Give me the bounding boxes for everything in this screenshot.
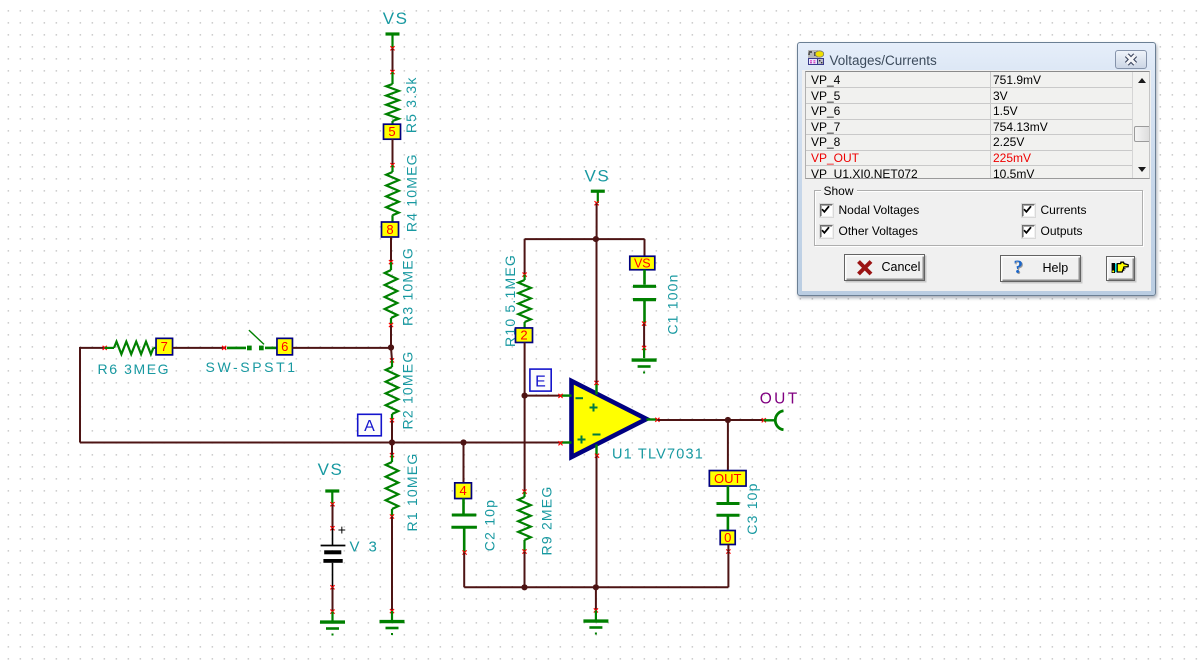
junction node A (389, 439, 395, 445)
wire R3 to junction (390, 325, 392, 348)
checkbox Other Voltages (820, 225, 833, 238)
svg-text:VS: VS (383, 9, 409, 28)
wire node E to inverting input (525, 395, 561, 397)
wire op-amp V+ to VS (596, 239, 598, 383)
svg-text:R6 3MEG: R6 3MEG (98, 361, 171, 377)
checkbox Currents (1022, 204, 1035, 217)
svg-text:VS: VS (318, 460, 344, 479)
power VS (battery) (318, 460, 344, 506)
wire node8 to R3 (390, 237, 392, 262)
resistor R3 (385, 247, 416, 327)
capacitor C2 (451, 499, 497, 555)
svg-text:A: A (364, 418, 375, 435)
svg-text:5: 5 (388, 124, 395, 139)
scrollbar (1132, 72, 1150, 178)
ground (main) (583, 608, 608, 634)
svg-text:SW-SPST1: SW-SPST1 (206, 359, 298, 375)
capacitor C3 (717, 482, 761, 534)
svg-text:VS: VS (585, 166, 611, 185)
node 8 (382, 222, 399, 237)
wire VS to V3 (332, 504, 334, 528)
wire output node to C3 (727, 420, 729, 471)
wire bottom rail to ground (595, 587, 597, 610)
Help button (1000, 255, 1081, 282)
junction R9 bottom (521, 584, 527, 590)
wire bottom rail (464, 586, 728, 588)
voltages list (805, 71, 1150, 179)
svg-text:6: 6 (281, 339, 288, 354)
output terminal OUT (760, 390, 800, 430)
node 5 (384, 124, 401, 139)
dialog icon (808, 50, 824, 70)
svg-text:R5 3.3k: R5 3.3k (403, 76, 419, 133)
wire left corner to R6 (80, 347, 107, 443)
svg-text:C2 10p: C2 10p (482, 499, 498, 551)
wire output to terminal (728, 419, 764, 421)
wire node2 to node E (524, 343, 526, 396)
ground (R1) (380, 609, 405, 635)
svg-text:R4 10MEG: R4 10MEG (404, 153, 420, 232)
svg-text:0: 0 (724, 530, 731, 545)
wire C1 to ground (643, 324, 645, 348)
capacitor C1 (633, 270, 681, 335)
dialog Voltages/Currents (797, 42, 1156, 296)
wire op-amp V- to bottom rail (596, 456, 598, 588)
node 2 (516, 328, 533, 343)
wire op-amp output (657, 419, 728, 421)
svg-text:U1 TLV7031: U1 TLV7031 (612, 447, 704, 463)
checkbox Outputs (1022, 225, 1035, 238)
Show group box (814, 190, 1143, 246)
power VS (op-amp) (585, 166, 611, 205)
svg-text:OUT: OUT (760, 390, 800, 407)
wire node A rail to C2 (463, 443, 465, 484)
junction node E (522, 393, 528, 399)
junction VS node (593, 236, 599, 242)
wire VS to junction (596, 203, 598, 239)
resistor R5 (386, 70, 419, 133)
junction C2 top (460, 439, 466, 445)
svg-text:R9 2MEG: R9 2MEG (539, 486, 555, 556)
battery V3 (321, 522, 380, 588)
svg-text:E: E (535, 374, 546, 391)
svg-text:R2 10MEG: R2 10MEG (400, 351, 416, 430)
power VS (top rail) (383, 9, 409, 50)
junction output node (725, 417, 731, 423)
node A label (358, 414, 382, 436)
node E label (530, 369, 551, 391)
node OUT label (C3) (709, 471, 746, 487)
ground (C1) (632, 346, 657, 374)
wire VS junction left to R10 (525, 239, 596, 275)
checkbox Nodal Voltages (820, 204, 833, 217)
svg-text:VS: VS (634, 257, 651, 271)
wire node5 to R4 (392, 139, 394, 165)
resistor R4 (386, 153, 419, 232)
junction R3/R2/switch-row (388, 344, 394, 350)
switch SW-SPST1 (206, 330, 298, 375)
wire node E down to R9 (524, 396, 526, 492)
ground (V3) (320, 610, 345, 636)
wire VS junction right to C1 (596, 239, 645, 256)
wire VS to R5 (392, 48, 394, 72)
Cancel button (844, 254, 925, 281)
resistor R10 (502, 254, 531, 347)
wire non-inverting rail (80, 442, 561, 444)
wire node0 to bottom rail (726, 545, 730, 588)
svg-text:7: 7 (161, 339, 168, 354)
svg-text:R1 10MEG: R1 10MEG (404, 453, 420, 532)
resistor R2 (386, 348, 416, 430)
node 7 (156, 338, 173, 355)
wire C2 to bottom rail (463, 553, 465, 588)
node VS label (C1) (630, 256, 655, 270)
resistor R6 (98, 342, 171, 377)
svg-text:+: + (338, 522, 346, 538)
node 4 (455, 483, 472, 499)
close button (1115, 50, 1147, 69)
node 0 (720, 530, 735, 545)
svg-text:R3 10MEG: R3 10MEG (400, 247, 416, 326)
wire node6 to main column (292, 347, 391, 349)
svg-text:2: 2 (520, 328, 527, 343)
svg-text:OUT: OUT (714, 471, 742, 486)
wire R9 to bottom rail (524, 552, 526, 588)
junction ground bottom (593, 584, 599, 590)
svg-text:C3 10p: C3 10p (744, 482, 760, 534)
resistor R1 (386, 443, 420, 532)
node 6 (277, 338, 293, 355)
wire R2 to node A rail (391, 420, 393, 442)
svg-text:V 3: V 3 (350, 539, 380, 556)
svg-text:8: 8 (386, 222, 393, 237)
wire V3 to ground (330, 585, 334, 611)
hand button (1106, 256, 1135, 281)
resistor R9 (518, 486, 554, 556)
op-amp U1 TLV7031 (558, 381, 704, 463)
wire node7 to switch (173, 347, 226, 349)
wire R1 to ground (391, 517, 393, 612)
dialog title (830, 53, 937, 68)
svg-text:C1 100n: C1 100n (665, 273, 681, 334)
svg-text:4: 4 (459, 483, 466, 498)
